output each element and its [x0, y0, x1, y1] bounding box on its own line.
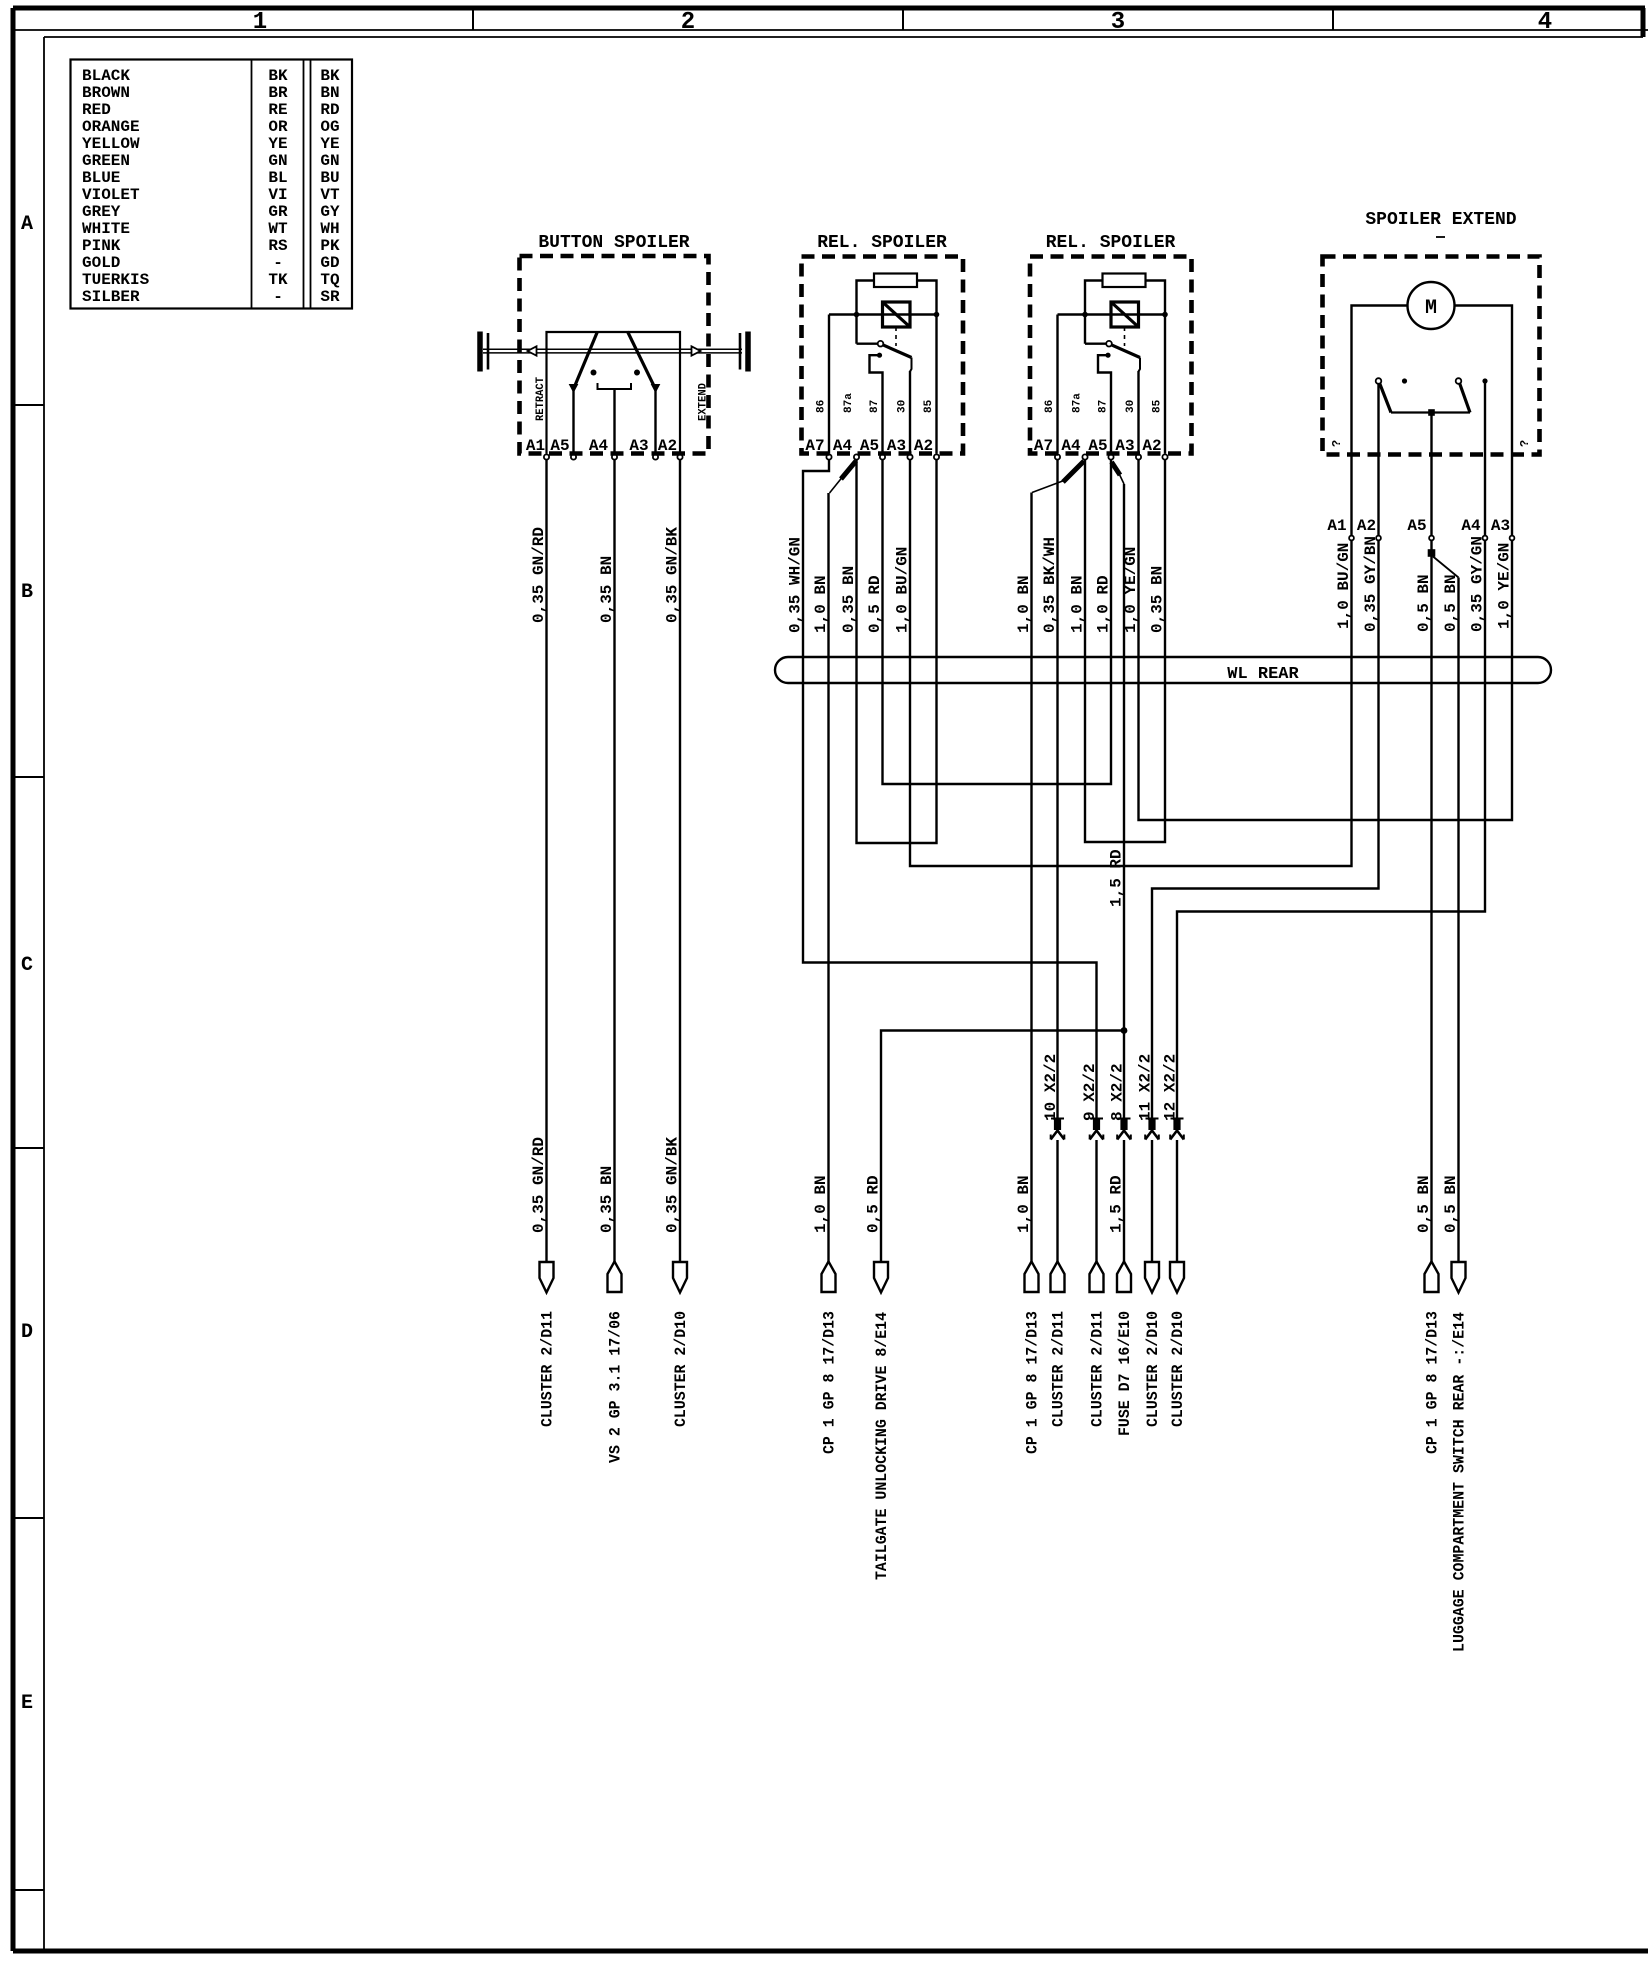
switch S23 movable blade right (extend) [628, 332, 656, 390]
svg-text:1,0 BN: 1,0 BN [812, 575, 830, 633]
connector arrow to CLUSTER 2/D10 (12) [1170, 1262, 1184, 1293]
svg-text:TK: TK [268, 271, 288, 289]
svg-text:CLUSTER 2/D11: CLUSTER 2/D11 [539, 1311, 557, 1427]
connector arrow from CP 1 GP 8 17/D13 [822, 1262, 836, 1293]
relay K1 (extend) group [802, 233, 964, 460]
wire 0,35 GN/BK S23-A2 to CLUSTER 2/D10 [679, 460, 681, 1262]
top ruler divider 3|4 [1332, 8, 1334, 30]
motor unit pin stub x=1485 [1484, 455, 1486, 536]
svg-text:TQ: TQ [320, 271, 340, 289]
relay K2 movable armature blade 30 [1111, 345, 1140, 358]
limit switch right blade pivot circle [1456, 378, 1462, 384]
svg-text:PINK: PINK [82, 237, 121, 255]
row tick E|end [13, 1889, 44, 1891]
connector arrow from CP 1 GP 8 17/D13 (K2) [1025, 1262, 1039, 1293]
svg-text:0,5 RD: 0,5 RD [866, 575, 884, 633]
svg-text:0,5 BN: 0,5 BN [1442, 574, 1460, 632]
svg-text:A2: A2 [914, 437, 933, 455]
wire color legend table box [71, 60, 353, 309]
inline connector 9 X2/2 [1090, 1118, 1103, 1120]
row tick C|D [13, 1147, 44, 1149]
svg-text:0,5 BN: 0,5 BN [1442, 1175, 1460, 1233]
wire 0,35 BK/WH K2-86 to CLUSTER 2/D11 [1056, 460, 1058, 1119]
svg-text:A1: A1 [1327, 517, 1346, 535]
connector arrow to CLUSTER 2/D11 [540, 1262, 554, 1293]
relay K1 contact 87a fixed arm [857, 343, 878, 345]
motor unit dashed enclosure [1323, 257, 1540, 455]
svg-text:LUGGAGE COMPARTMENT SWITCH REA: LUGGAGE COMPARTMENT SWITCH REAR -:/E14 [1451, 1312, 1469, 1652]
relay K2 junction dot coil/85 [1162, 312, 1168, 318]
svg-text:SR: SR [320, 288, 340, 306]
wire 0,35 WH/GN K1-86 jog to CLUSTER 2/D11 [803, 460, 1097, 1119]
wire 0,35 BN K1-87a to K1-85 tie [857, 460, 937, 844]
switch S23 pin contact circle x=655.5 [653, 454, 658, 459]
relay K2 dashed enclosure [1030, 257, 1192, 454]
limit switch right blade [1460, 383, 1471, 413]
svg-text:CLUSTER 2/D11: CLUSTER 2/D11 [1050, 1311, 1068, 1427]
svg-text:8 X2/2: 8 X2/2 [1109, 1063, 1127, 1121]
svg-text:A2: A2 [658, 437, 677, 455]
svg-text:YE: YE [320, 135, 339, 153]
svg-text:87a: 87a [843, 393, 855, 413]
switch S23 blade left tip arrowhead [570, 385, 578, 393]
relay K1 junction dot coil/85 [934, 312, 940, 318]
svg-text:YE: YE [268, 135, 287, 153]
connector arrow from CP 1 GP 8 17/D13 (A5) [1425, 1262, 1439, 1293]
splice square motor A5 [1428, 549, 1436, 557]
svg-text:1,0 BN: 1,0 BN [1069, 575, 1087, 633]
connector arrow from VS 2 GP 3.1 [608, 1262, 622, 1293]
svg-text:OR: OR [268, 118, 288, 136]
wire continues to arrow [1095, 1140, 1097, 1262]
limit switch left fixed contact dot [1402, 378, 1407, 383]
svg-text:1,0 BN: 1,0 BN [1015, 575, 1033, 633]
svg-text:A3: A3 [1491, 517, 1510, 535]
relay K1 coil-armature dashed link [895, 327, 897, 346]
switch S23 actuator arrow EXTEND direction [692, 346, 701, 355]
wire 0,35 GY/BN motor A2 to CLUSTER 2/D10 [1152, 541, 1379, 1119]
svg-text:A5: A5 [1407, 517, 1426, 535]
svg-text:3: 3 [1111, 9, 1125, 36]
svg-text:GD: GD [320, 254, 339, 272]
switch S23 contact housing [547, 332, 681, 454]
svg-text:OG: OG [320, 118, 339, 136]
svg-text:-: - [273, 254, 283, 272]
svg-text:CP 1 GP 8 17/D13: CP 1 GP 8 17/D13 [1024, 1311, 1042, 1454]
svg-text:86: 86 [816, 400, 828, 413]
relay K2 contact pivot circle [1106, 341, 1112, 347]
svg-text:BL: BL [268, 169, 287, 187]
relay K1 relay coil symbol [883, 302, 911, 327]
relay K1 resistor left lead / pin 87a riser [857, 281, 875, 344]
svg-text:YELLOW: YELLOW [82, 135, 140, 153]
svg-text:1,0 BN: 1,0 BN [812, 1175, 830, 1233]
svg-text:C: C [21, 954, 33, 977]
svg-text:BLACK: BLACK [82, 67, 130, 85]
limit switch pin A2 wire [1377, 384, 1379, 455]
svg-text:0,5 BN: 0,5 BN [1415, 574, 1433, 632]
svg-text:BR: BR [268, 84, 288, 102]
wire 0,35 GN/RD S23-A1 to CLUSTER 2/D11 [545, 460, 547, 1262]
relay K2 coil-armature dashed link [1124, 327, 1126, 346]
top ruler divider 2|3 [902, 8, 904, 30]
svg-text:RED: RED [82, 101, 111, 119]
svg-text:30: 30 [897, 400, 909, 413]
relay K1 contact 87 tip dot [877, 353, 882, 358]
relay K1 pin contact circle x=856.5 [854, 454, 859, 459]
svg-text:GN: GN [320, 152, 339, 170]
svg-text:VI: VI [268, 186, 287, 204]
wire 1,0 BN / 0,35 BN K2-87a to K2-85 tie [1085, 460, 1165, 843]
svg-text:1,0 YE/GN: 1,0 YE/GN [1122, 547, 1140, 633]
svg-text:BN: BN [320, 84, 339, 102]
svg-text:A3: A3 [1115, 437, 1134, 455]
svg-text:A7: A7 [1034, 437, 1053, 455]
relay K2 pin 30 wire [1137, 371, 1139, 454]
row tick B|C [13, 776, 44, 778]
svg-text:1,0 BU/GN: 1,0 BU/GN [1335, 543, 1353, 629]
svg-text:A4: A4 [589, 437, 609, 455]
svg-text:RD: RD [320, 101, 339, 119]
relay K2 contact 87a fixed arm [1085, 343, 1106, 345]
svg-text:FUSE D7 16/E10: FUSE D7 16/E10 [1116, 1311, 1134, 1436]
switch S23 actuator T-bar right [739, 333, 742, 370]
svg-text:SILBER: SILBER [82, 288, 140, 306]
switch S23 actuator arrow RETRACT direction [528, 346, 537, 355]
limit switch common bar [1391, 411, 1470, 413]
limit switch common tap square [1428, 409, 1435, 416]
motor unit pin stub x=1431.5 [1430, 455, 1432, 536]
svg-text:1,0 BU/GN: 1,0 BU/GN [894, 547, 912, 633]
row tick A|B [13, 404, 44, 406]
svg-text:87a: 87a [1072, 393, 1084, 413]
switch S23 contact dot left [591, 370, 597, 376]
svg-text:0,35 BN: 0,35 BN [598, 1166, 616, 1233]
relay K1 movable armature blade 30 [883, 345, 912, 358]
relay K2 pin contact circle x=1085.0 [1082, 454, 1087, 459]
connector arrow from CLUSTER 2/D11 (10) [1051, 1262, 1065, 1293]
svg-text:12 X2/2: 12 X2/2 [1162, 1054, 1180, 1121]
top ruler divider 1|2 [472, 8, 474, 30]
switch S23 blade left lower contact wire pin A5 [572, 389, 574, 454]
relay K2 relay coil symbol [1111, 302, 1139, 327]
wire 1,0 YE/GN K2-30 to motor A3 [1139, 460, 1513, 821]
svg-text:0,35 BK/WH: 0,35 BK/WH [1041, 537, 1059, 633]
svg-text:WH: WH [320, 220, 339, 238]
svg-text:A7: A7 [805, 437, 824, 455]
svg-text:-: - [273, 288, 283, 306]
svg-text:30: 30 [1125, 400, 1137, 413]
connector arrow to CLUSTER 2/D10 [673, 1262, 687, 1293]
svg-text:VT: VT [320, 186, 340, 204]
relay K1 contact pivot circle [878, 341, 884, 347]
svg-text:RE: RE [268, 101, 287, 119]
relay K2 resistor right lead / pin 85 riser [1146, 281, 1166, 454]
splice wedge K2 87 branch to 1,5 RD [1112, 462, 1121, 475]
svg-text:BK: BK [268, 67, 288, 85]
limit switch pin A5 wire [1430, 413, 1432, 455]
limit switch pin A4 wire [1484, 381, 1486, 455]
svg-text:85: 85 [1152, 399, 1164, 413]
relay K1 dashed enclosure [802, 257, 964, 454]
svg-text:A4: A4 [1061, 437, 1081, 455]
connector arrow to CLUSTER 2/D10 (11) [1145, 1262, 1159, 1293]
svg-text:VIOLET: VIOLET [82, 186, 140, 204]
svg-text:0,35 GN/BK: 0,35 GN/BK [664, 1137, 682, 1233]
svg-text:A4: A4 [833, 437, 853, 455]
svg-text:0,35 GN/BK: 0,35 GN/BK [664, 527, 682, 623]
switch S23 pin contact circle x=573.5 [571, 454, 576, 459]
connector arrow to TAILGATE UNLOCKING DRIVE 8/E14 [874, 1262, 888, 1293]
wire 0,35 GY/GN motor A4 to CLUSTER 2/D10 [1177, 541, 1485, 1119]
inline connector 12 X2/2 [1171, 1118, 1184, 1120]
svg-text:ORANGE: ORANGE [82, 118, 140, 136]
svg-text:0,35 GN/RD: 0,35 GN/RD [530, 1137, 548, 1233]
svg-text:87: 87 [869, 400, 881, 413]
svg-text:0,35 GY/BN: 0,35 GY/BN [1362, 536, 1380, 632]
svg-text:REL. SPOILER: REL. SPOILER [1046, 233, 1176, 253]
inline connector 8 X2/2 [1118, 1118, 1131, 1120]
junction dot 1,5 RD / 0,5 RD tailgate branch [1121, 1027, 1128, 1034]
relay K2 resistor left lead / pin 87a riser [1085, 281, 1103, 344]
relay K1 pin contact circle x=829.0 [826, 454, 831, 459]
svg-text:0,5 RD: 0,5 RD [865, 1175, 883, 1233]
svg-text:CLUSTER 2/D10: CLUSTER 2/D10 [672, 1311, 690, 1427]
svg-text:?: ? [1330, 440, 1344, 447]
switch S23 blade right tip arrowhead [652, 385, 660, 393]
relay K1 coil shunt resistor [874, 274, 917, 288]
relay K2 coil bus line 86-85 [1058, 313, 1166, 315]
svg-text:1,0 BN: 1,0 BN [1015, 1175, 1033, 1233]
limit switch left blade pivot circle [1376, 378, 1382, 384]
svg-text:A3: A3 [629, 437, 648, 455]
svg-text:A5: A5 [1088, 437, 1107, 455]
svg-text:86: 86 [1044, 400, 1056, 413]
top ruler band line [13, 29, 1648, 31]
svg-text:PK: PK [320, 237, 340, 255]
svg-text:B: B [21, 581, 33, 604]
svg-text:REL. SPOILER: REL. SPOILER [817, 233, 947, 253]
svg-text:CLUSTER 2/D10: CLUSTER 2/D10 [1144, 1311, 1162, 1427]
svg-text:1: 1 [253, 9, 267, 36]
relay K2 pin 86 wire [1056, 315, 1058, 454]
connector arrow from FUSE D7 16/E10 [1117, 1262, 1131, 1293]
svg-text:0,35 GN/RD: 0,35 GN/RD [530, 527, 548, 623]
motor right lead to pin A3 [1455, 306, 1513, 455]
svg-text:CP 1 GP 8 17/D13: CP 1 GP 8 17/D13 [821, 1311, 839, 1454]
svg-text:BROWN: BROWN [82, 84, 130, 102]
svg-text:GN: GN [268, 152, 287, 170]
motor unit pin stub x=1378.5 [1377, 455, 1379, 536]
svg-text:RETRACT: RETRACT [535, 377, 547, 421]
svg-text:WL REAR: WL REAR [1227, 665, 1299, 684]
wire 1,0 BN K2-87a branch to CP 1 GP 8 [1063, 461, 1084, 482]
svg-text:GR: GR [268, 203, 288, 221]
svg-text:GY: GY [320, 203, 340, 221]
relay K1 junction dot coil/87a [854, 312, 860, 318]
svg-text:A: A [21, 213, 33, 236]
switch S23 pin contact circle x=614.5 [612, 454, 617, 459]
relay K1 resistor right lead / pin 85 riser [917, 281, 937, 454]
svg-text:0,35 BN: 0,35 BN [1149, 566, 1167, 633]
svg-text:A2: A2 [1142, 437, 1161, 455]
svg-text:1,5 RD: 1,5 RD [1108, 1175, 1126, 1233]
svg-text:GOLD: GOLD [82, 254, 120, 272]
svg-text:BUTTON SPOILER: BUTTON SPOILER [538, 233, 689, 253]
relay K1 pin contact circle x=882.5 [880, 454, 885, 459]
svg-text:?: ? [1518, 440, 1532, 447]
relay K2 pin contact circle x=1111.0 [1108, 454, 1113, 459]
svg-text:2: 2 [681, 9, 695, 36]
svg-text:TAILGATE UNLOCKING DRIVE 8/E14: TAILGATE UNLOCKING DRIVE 8/E14 [873, 1312, 891, 1580]
legend divider names|col2 [251, 60, 253, 309]
connector arrow to LUGGAGE COMPARTMENT SWITCH REAR [1452, 1262, 1466, 1293]
svg-text:A1: A1 [526, 437, 545, 455]
switch S23 actuator double rod [483, 349, 742, 353]
relay K2 pin contact circle x=1165.0 [1162, 454, 1167, 459]
svg-text:D: D [21, 1321, 33, 1344]
wire 1,0 BN K1-87a branch to CP 1 GP 8 [827, 493, 829, 1262]
svg-text:WT: WT [268, 220, 288, 238]
inline connector 11 X2/2 [1146, 1118, 1159, 1120]
svg-text:BU: BU [320, 169, 339, 187]
wire 1,5 RD K2-87 branch to FUSE D7 [1123, 484, 1125, 1118]
motor M symbol circle [1408, 282, 1455, 329]
limit switch right fixed contact dot [1482, 378, 1487, 383]
relay K2 (retract) group [1030, 233, 1192, 460]
wire 0,5 RD branch to TAILGATE UNLOCKING DRIVE [881, 1031, 1124, 1262]
relay K1 pin contact circle x=936.5 [934, 454, 939, 459]
svg-text:0,35 GY/GN: 0,35 GY/GN [1469, 536, 1487, 632]
svg-text:10 X2/2: 10 X2/2 [1042, 1054, 1060, 1121]
relay K1 contact 87 arm [870, 355, 883, 453]
wire 0,5 RD / 1,0 RD K1-87 to K2-87 tie [883, 460, 1112, 785]
svg-text:4: 4 [1538, 9, 1552, 36]
relay K2 pin contact circle x=1057.5 [1055, 454, 1060, 459]
wire 1,0 BU/GN K1-30 to motor A1 [910, 460, 1352, 867]
switch S23 pin contact circle x=680 [677, 454, 682, 459]
splice wedge K1 87a branch [841, 461, 856, 479]
svg-text:WHITE: WHITE [82, 220, 130, 238]
svg-text:GREY: GREY [82, 203, 121, 221]
inline connector 10 X2/2 [1051, 1118, 1064, 1120]
relay K2 coil shunt resistor [1103, 274, 1146, 288]
motor unit title underline dash [1436, 236, 1445, 238]
svg-text:BLUE: BLUE [82, 169, 120, 187]
switch S23 contact dot right [634, 370, 640, 376]
svg-text:E: E [21, 1692, 33, 1715]
svg-text:A3: A3 [887, 437, 906, 455]
svg-text:11 X2/2: 11 X2/2 [1137, 1054, 1155, 1121]
svg-text:CP 1 GP 8 17/D13: CP 1 GP 8 17/D13 [1424, 1311, 1442, 1454]
switch S23 dashed enclosure [520, 256, 709, 454]
relay K2 contact 87 tip dot [1105, 353, 1110, 358]
motor left lead to pin A1 [1352, 306, 1408, 455]
svg-text:0,35 BN: 0,35 BN [598, 556, 616, 623]
relay K1 pin 86 wire [828, 315, 830, 454]
connector arrow from CLUSTER 2/D11 (9) [1090, 1262, 1104, 1293]
svg-text:M: M [1425, 297, 1437, 320]
switch S23 common wire pin A4 [613, 389, 615, 454]
switch S23 movable blade left (retract) [574, 332, 598, 390]
svg-text:TUERKIS: TUERKIS [82, 271, 150, 289]
svg-text:CLUSTER 2/D10: CLUSTER 2/D10 [1169, 1311, 1187, 1427]
switch S23 blade right lower contact wire pin A3 [654, 389, 656, 454]
switch S23 common contact bar [598, 383, 632, 389]
wire 0,5 BN branch to LUGGAGE COMPARTMENT SWITCH [1433, 557, 1459, 578]
svg-text:CLUSTER 2/D11: CLUSTER 2/D11 [1089, 1311, 1107, 1427]
svg-text:A4: A4 [1461, 517, 1481, 535]
motor unit pin stub x=1351.5 [1350, 455, 1352, 536]
svg-text:A5: A5 [860, 437, 879, 455]
svg-text:0,5 BN: 0,5 BN [1415, 1175, 1433, 1233]
svg-text:RS: RS [268, 237, 288, 255]
svg-text:A5: A5 [550, 437, 569, 455]
svg-text:87: 87 [1098, 400, 1110, 413]
motor unit pin stub x=1512 [1511, 455, 1513, 536]
svg-text:A2: A2 [1357, 517, 1376, 535]
relay K2 contact 87 arm [1098, 355, 1111, 453]
svg-text:BK: BK [320, 67, 340, 85]
svg-text:SPOILER EXTEND: SPOILER EXTEND [1365, 210, 1516, 230]
svg-text:1,0 RD: 1,0 RD [1095, 575, 1113, 633]
svg-text:85: 85 [923, 399, 935, 413]
wire 0,35 BN S23-A4 to VS 2 GP [613, 460, 615, 1262]
switch S23 actuator T-bar left [477, 332, 483, 372]
relay K2 junction dot coil/87a [1082, 312, 1088, 318]
svg-text:0,35 WH/GN: 0,35 WH/GN [787, 537, 805, 633]
legend divider col2|col3 [304, 60, 311, 309]
wire 0,5 BN motor A5 to CP 1 GP 8 [1430, 541, 1432, 1262]
relay K1 pin 30 wire [909, 371, 911, 454]
svg-text:GREEN: GREEN [82, 152, 130, 170]
switch S23 pin contact circle x=546.5 [544, 454, 549, 459]
svg-text:EXTEND: EXTEND [698, 383, 710, 421]
relay K2 pin contact circle x=1138.5 [1136, 454, 1141, 459]
svg-text:9 X2/2: 9 X2/2 [1081, 1063, 1099, 1121]
svg-text:1,5 RD: 1,5 RD [1108, 849, 1126, 907]
svg-text:VS 2 GP 3.1 17/06: VS 2 GP 3.1 17/06 [607, 1311, 625, 1463]
svg-text:0,35 BN: 0,35 BN [840, 566, 858, 633]
row tick D|E [13, 1517, 44, 1519]
relay K1 pin contact circle x=910.0 [907, 454, 912, 459]
limit switch left blade [1380, 383, 1392, 413]
harness bus WL REAR [775, 657, 1551, 683]
relay K1 coil bus line 86-85 [829, 313, 937, 315]
svg-text:1,0 YE/GN: 1,0 YE/GN [1496, 543, 1514, 629]
